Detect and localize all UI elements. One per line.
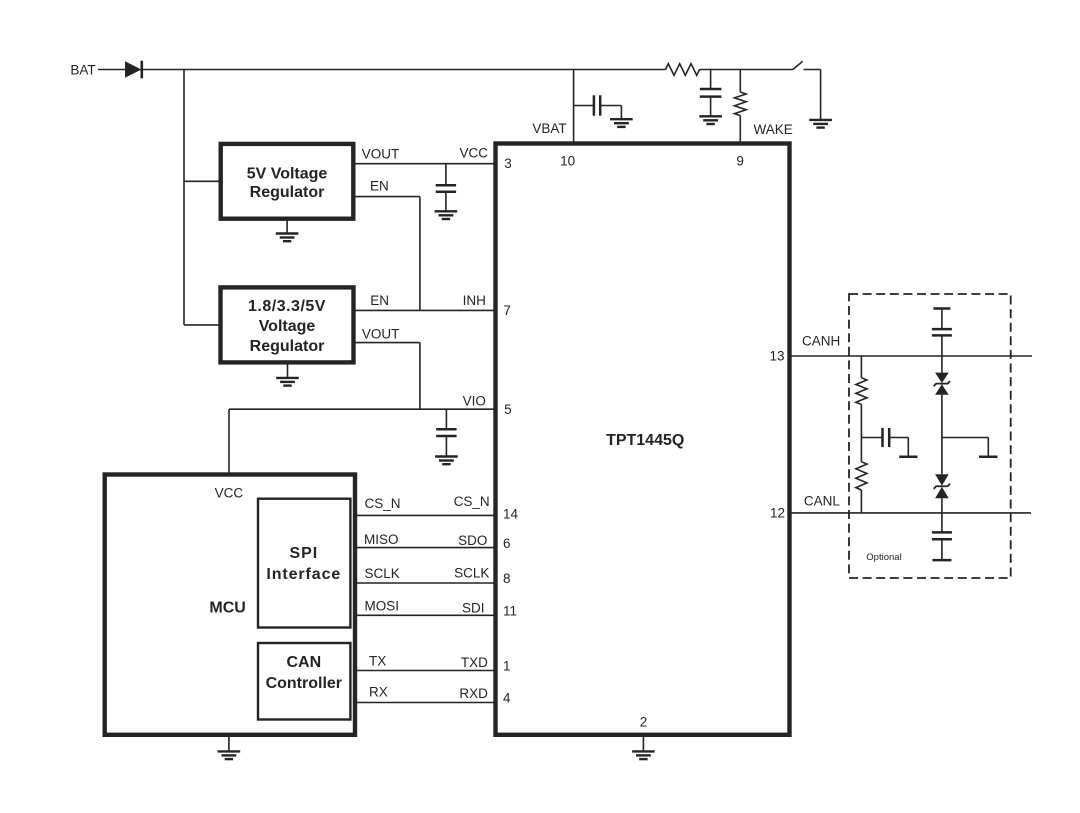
- svg-text:1: 1: [503, 659, 511, 674]
- svg-text:1.8/3.3/5V: 1.8/3.3/5V: [248, 298, 326, 315]
- svg-text:VIO: VIO: [463, 394, 486, 409]
- ground: [942, 437, 988, 439]
- svg-text:CAN: CAN: [286, 654, 321, 671]
- wire: [820, 70, 822, 120]
- ground: [218, 750, 241, 752]
- svg-text:4: 4: [503, 691, 511, 706]
- svg-text:2: 2: [640, 715, 648, 730]
- svg-text:TPT1445Q: TPT1445Q: [606, 432, 684, 449]
- wire CS_N to CS_N pin 14: [355, 514, 496, 516]
- ground: [809, 119, 832, 121]
- svg-text:Interface: Interface: [266, 566, 341, 583]
- capacitor C7 (CANL to bus): [941, 513, 943, 533]
- wire VOUT (1.8/3.3/5V regulator) to VIO: [354, 342, 420, 344]
- svg-text:SCLK: SCLK: [365, 566, 400, 581]
- svg-text:RX: RX: [369, 685, 388, 700]
- wire: [184, 180, 221, 182]
- svg-text:MOSI: MOSI: [365, 599, 400, 614]
- regulator U2 (5V Voltage Regulator): [221, 144, 354, 219]
- svg-text:6: 6: [503, 536, 511, 551]
- ground: [699, 115, 722, 117]
- switch S1 (wake switch): [793, 61, 803, 69]
- svg-text:11: 11: [503, 604, 517, 619]
- svg-text:13: 13: [769, 348, 784, 363]
- svg-text:5: 5: [504, 402, 512, 417]
- svg-text:Regulator: Regulator: [250, 338, 325, 355]
- wire MISO to SDO pin 6: [355, 547, 496, 549]
- svg-text:SDI: SDI: [462, 600, 485, 615]
- wire MOSI to SDI pin 11: [355, 614, 496, 616]
- ground: [435, 210, 458, 212]
- resistor (series RC filter): [666, 64, 700, 76]
- svg-text:TXD: TXD: [461, 655, 488, 670]
- wire: [941, 395, 943, 475]
- wire: [184, 324, 221, 326]
- capacitor C6 (CANH to bus): [933, 307, 950, 310]
- wire CANH pin 13: [790, 355, 1033, 357]
- svg-text:VBAT: VBAT: [532, 121, 566, 136]
- wire: [142, 69, 666, 71]
- wire: [700, 69, 793, 71]
- svg-text:CS_N: CS_N: [365, 496, 401, 511]
- svg-text:5V Voltage: 5V Voltage: [247, 166, 328, 183]
- svg-text:12: 12: [770, 505, 785, 520]
- svg-text:BAT: BAT: [70, 63, 95, 78]
- transient diode Z1 (CANH TVS): [941, 356, 943, 373]
- svg-text:3: 3: [504, 156, 512, 171]
- capacitor C2 (VIO decoupling): [445, 409, 447, 429]
- svg-text:MCU: MCU: [209, 600, 245, 617]
- wire VIO to pin 5: [229, 408, 496, 410]
- wire: [228, 737, 230, 751]
- svg-text:Regulator: Regulator: [250, 184, 325, 201]
- svg-text:14: 14: [503, 507, 519, 522]
- svg-text:Optional: Optional: [866, 552, 901, 563]
- wire TX to TXD pin 1: [355, 670, 496, 672]
- svg-text:VCC: VCC: [215, 486, 244, 501]
- wire EN to INH pin 7: [354, 309, 496, 311]
- svg-text:CS_N: CS_N: [454, 494, 490, 509]
- capacitor C4 (WAKE node filter): [710, 70, 712, 90]
- CAN Controller block: [258, 643, 350, 720]
- svg-text:CANL: CANL: [804, 493, 841, 508]
- wire: [98, 69, 125, 71]
- svg-text:RXD: RXD: [459, 686, 488, 701]
- resistor R2 (WAKE series) pin 9: [739, 70, 741, 93]
- capacitor C3 (VBAT filter): [574, 105, 594, 107]
- capacitor C5 (split termination): [861, 437, 882, 439]
- transient diode Z2 (CANL TVS): [935, 474, 949, 485]
- op-amp/IC U1 TPT1445Q: [496, 144, 790, 735]
- ground: [435, 455, 458, 457]
- wire VOUT to VCC pin 3: [353, 163, 495, 165]
- svg-text:Controller: Controller: [266, 675, 342, 692]
- wire: [228, 409, 230, 474]
- resistor R4 (CANL termination): [860, 438, 862, 462]
- ground: [632, 750, 655, 752]
- svg-text:8: 8: [503, 571, 511, 586]
- wire VBAT pin 10: [573, 70, 575, 144]
- svg-text:INH: INH: [463, 293, 486, 308]
- wire: [183, 70, 185, 325]
- svg-text:SPI: SPI: [290, 545, 319, 562]
- MCU block: [105, 475, 355, 735]
- wire RX to RXD pin 4: [355, 702, 496, 704]
- wire: [287, 362, 289, 378]
- optional network box: [849, 294, 1011, 578]
- ground: [276, 232, 299, 234]
- svg-text:7: 7: [503, 303, 511, 318]
- svg-text:9: 9: [736, 153, 744, 168]
- wire: [286, 219, 288, 234]
- wire EN (5V regulator): [353, 196, 420, 198]
- svg-text:CANH: CANH: [802, 333, 840, 348]
- svg-text:SDO: SDO: [458, 533, 487, 548]
- svg-text:EN: EN: [370, 178, 389, 193]
- svg-text:MISO: MISO: [364, 532, 399, 547]
- wire CANL pin 12: [790, 512, 1032, 514]
- wire: [642, 737, 644, 752]
- ground: [276, 377, 299, 379]
- regulator U3 (1.8/3.3/5V Voltage Regulator): [221, 287, 354, 362]
- svg-text:VOUT: VOUT: [362, 147, 400, 162]
- diode D1: [125, 61, 141, 77]
- wire SCLK to SCLK pin 8: [355, 582, 496, 584]
- resistor R3 (CANH termination): [860, 356, 862, 378]
- ground: [610, 118, 633, 120]
- svg-text:VOUT: VOUT: [362, 326, 400, 341]
- svg-text:SCLK: SCLK: [454, 566, 489, 581]
- svg-text:VCC: VCC: [460, 146, 489, 161]
- capacitor C1 (VCC decoupling): [445, 164, 447, 186]
- ground: [899, 456, 917, 459]
- svg-text:EN: EN: [370, 293, 389, 308]
- svg-text:Voltage: Voltage: [259, 318, 316, 335]
- svg-text:10: 10: [560, 153, 575, 168]
- svg-text:WAKE: WAKE: [754, 122, 793, 137]
- svg-text:TX: TX: [369, 654, 386, 669]
- SPI Interface block: [258, 499, 350, 628]
